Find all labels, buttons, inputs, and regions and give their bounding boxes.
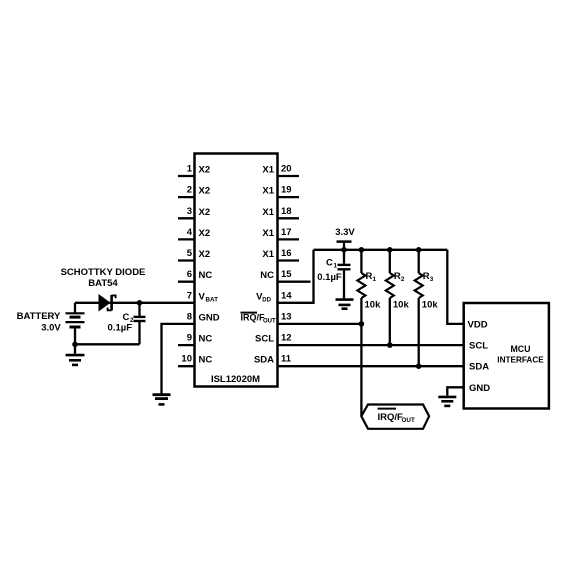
- wire SCL pin 12 to MCU: [278, 344, 464, 346]
- svg-text:19: 19: [281, 185, 292, 196]
- svg-text:IRQ/F: IRQ/F: [378, 412, 404, 423]
- svg-text:X1: X1: [262, 165, 274, 176]
- ground MCU: [438, 397, 456, 406]
- svg-text:GND: GND: [199, 313, 220, 324]
- svg-text:3: 3: [430, 276, 434, 283]
- pin 2 X2: [178, 185, 210, 198]
- node R2 bottom junction: [387, 342, 393, 348]
- resistor R2 10k: [386, 250, 410, 345]
- pin 12 SCL: [255, 333, 292, 345]
- svg-text:OUT: OUT: [263, 318, 276, 324]
- label C2: [123, 312, 135, 324]
- svg-text:10k: 10k: [365, 300, 382, 311]
- node R2 tap on rail: [387, 247, 393, 253]
- pin 10 NC: [178, 354, 212, 367]
- svg-text:X1: X1: [262, 228, 274, 239]
- svg-text:C: C: [123, 312, 130, 323]
- pin 14 VDD: [256, 290, 292, 303]
- node C2 tap on VBAT line: [137, 300, 143, 306]
- svg-text:4: 4: [187, 227, 193, 238]
- pin 19 X1: [262, 185, 299, 198]
- svg-text:2: 2: [187, 185, 192, 196]
- svg-text:NC: NC: [199, 270, 213, 281]
- wire SDA pin 11 to MCU: [278, 365, 464, 367]
- svg-text:OUT: OUT: [402, 417, 415, 424]
- wire battery to ground: [74, 344, 76, 354]
- svg-text:10: 10: [181, 354, 192, 365]
- svg-text:R: R: [423, 271, 430, 282]
- svg-text:18: 18: [281, 206, 292, 217]
- svg-text:X1: X1: [262, 249, 274, 260]
- svg-text:C: C: [326, 257, 333, 268]
- svg-text:X2: X2: [199, 228, 211, 239]
- pin 11 SDA: [254, 354, 292, 366]
- ground C1: [336, 300, 354, 309]
- wire IRQ/FOUT descent to flag: [360, 324, 362, 416]
- pin 3 X2: [178, 206, 210, 219]
- pin 17 X1: [262, 227, 299, 240]
- pin 5 X2: [178, 248, 210, 261]
- capacitor C2 0.1uF: [134, 303, 146, 345]
- svg-text:5: 5: [187, 248, 193, 259]
- svg-text:NC: NC: [199, 334, 213, 345]
- svg-text:R: R: [366, 271, 373, 282]
- svg-text:3.3V: 3.3V: [335, 227, 355, 238]
- svg-text:X2: X2: [199, 249, 211, 260]
- svg-text:MCU: MCU: [510, 344, 530, 354]
- svg-text:1: 1: [334, 262, 338, 269]
- svg-text:13: 13: [281, 312, 292, 323]
- svg-text:VDD: VDD: [468, 319, 488, 330]
- ground battery: [66, 355, 85, 365]
- svg-text:SDA: SDA: [469, 362, 489, 373]
- pin 18 X1: [262, 206, 299, 219]
- svg-text:16: 16: [281, 248, 292, 259]
- svg-text:X1: X1: [262, 207, 274, 218]
- wire battery to C2 bottom: [75, 343, 140, 345]
- svg-text:12: 12: [281, 333, 292, 344]
- svg-text:17: 17: [281, 227, 292, 238]
- ground pin 8: [153, 395, 171, 405]
- svg-text:20: 20: [281, 164, 292, 175]
- resistor R1 10k: [357, 250, 381, 324]
- svg-text:7: 7: [187, 290, 192, 301]
- pin 9 NC: [178, 333, 212, 346]
- node R1 tap on rail: [359, 247, 365, 253]
- svg-text:11: 11: [281, 354, 292, 365]
- svg-text:15: 15: [281, 269, 292, 280]
- wire pin 13 to R1 bottom: [278, 323, 362, 325]
- wire 3.3V rail: [314, 249, 448, 251]
- svg-text:8: 8: [187, 312, 192, 323]
- svg-text:V: V: [199, 291, 206, 302]
- op-amp U1 ISL12020M IC body: [195, 154, 278, 387]
- wire battery to pin 7 VBAT: [75, 302, 195, 304]
- svg-text:X2: X2: [199, 207, 211, 218]
- svg-text:2: 2: [401, 276, 405, 283]
- svg-text:ISL12020M: ISL12020M: [211, 374, 260, 385]
- svg-text:0.1µF: 0.1µF: [108, 323, 133, 334]
- capacitor C1 0.1uF: [338, 250, 351, 299]
- svg-text:BATTERY: BATTERY: [17, 311, 61, 322]
- svg-text:3.0V: 3.0V: [41, 323, 61, 334]
- power terminal 3.3V: [335, 227, 355, 250]
- pin 20 X1: [262, 164, 299, 177]
- svg-text:SCL: SCL: [255, 334, 274, 345]
- node R1 bottom junction: [359, 321, 365, 327]
- svg-text:DD: DD: [262, 297, 271, 303]
- diode D1 BAT54 schottky: [99, 294, 116, 312]
- pin 4 X2: [178, 227, 210, 240]
- svg-text:10k: 10k: [422, 300, 439, 311]
- svg-text:X1: X1: [262, 186, 274, 197]
- wire rail to pin 14 VDD: [278, 250, 314, 303]
- pin 1 X2: [178, 164, 210, 177]
- wire MCU GND to ground: [447, 387, 463, 395]
- label C1: [326, 257, 338, 269]
- svg-text:10k: 10k: [393, 300, 410, 311]
- svg-text:X2: X2: [199, 186, 211, 197]
- svg-text:NC: NC: [260, 270, 274, 281]
- svg-text:0.1µF: 0.1µF: [317, 272, 342, 283]
- svg-text:NC: NC: [199, 355, 213, 366]
- node R3 bottom junction: [416, 363, 422, 369]
- svg-text:1: 1: [187, 164, 193, 175]
- node battery bottom junction: [72, 342, 78, 348]
- node R3 tap on rail: [416, 247, 422, 253]
- svg-text:9: 9: [187, 333, 192, 344]
- wire pin 8 GND to ground: [162, 324, 195, 394]
- svg-text:1: 1: [373, 276, 377, 283]
- resistor R3 10k: [415, 250, 439, 366]
- svg-text:SDA: SDA: [254, 355, 274, 366]
- pin 16 X1: [262, 248, 299, 261]
- svg-text:SCHOTTKY DIODE: SCHOTTKY DIODE: [61, 267, 146, 278]
- svg-text:X2: X2: [199, 165, 211, 176]
- net flag IRQ/FOUT: [361, 405, 429, 429]
- MCU interface box: [464, 303, 549, 409]
- pin 15 NC: [260, 269, 310, 282]
- svg-text:IRQ/F: IRQ/F: [241, 312, 266, 322]
- svg-text:GND: GND: [469, 383, 490, 394]
- svg-text:3: 3: [187, 206, 192, 217]
- svg-text:6: 6: [187, 269, 192, 280]
- svg-text:14: 14: [281, 290, 292, 301]
- pin 8 GND: [187, 312, 220, 324]
- svg-text:BAT54: BAT54: [88, 278, 118, 289]
- node C1 tap on rail: [341, 247, 347, 253]
- battery BT1 3.0V: [66, 303, 85, 345]
- svg-text:SCL: SCL: [469, 341, 488, 352]
- pin 13 IRQ/FOUT: [241, 312, 292, 325]
- svg-text:R: R: [394, 271, 401, 282]
- wire rail to MCU VDD: [447, 250, 463, 324]
- pin 7 VBAT: [187, 290, 218, 303]
- pin 6 NC: [178, 269, 212, 282]
- svg-text:BAT: BAT: [206, 296, 219, 303]
- svg-text:INTERFACE: INTERFACE: [497, 355, 544, 364]
